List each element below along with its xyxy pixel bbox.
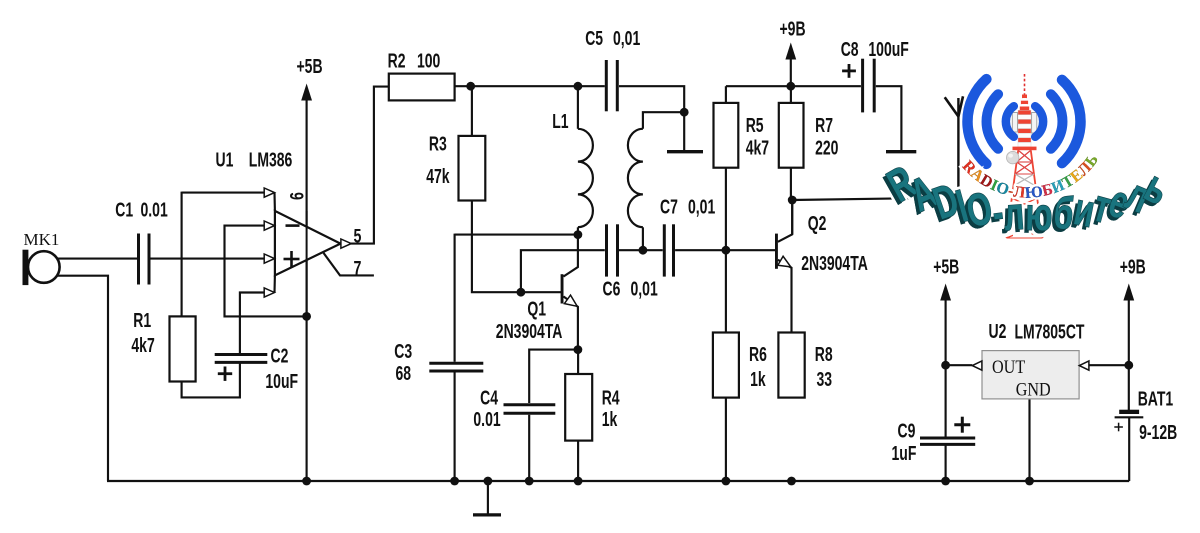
microphone MK1 circle [28,251,60,283]
junction gnd C9 [941,477,950,486]
wire R1 bottom to C2 bottom [182,363,240,397]
capacitor C5 [605,60,608,111]
svg-text:R5: R5 [746,113,764,136]
node Q1 emitter [574,345,583,354]
regulator U2 box [982,351,1079,399]
svg-text:C1: C1 [115,198,133,221]
transistor Q1 base bar [561,274,564,303]
wire R4 top lead [577,350,579,374]
transistor Q2 emitter [778,260,792,333]
capacitor C7 [663,224,666,276]
junction gnd C4 [525,477,534,486]
ground bar near C8 [886,150,916,153]
wire +9B top stub [790,56,792,86]
transistor Q1 collector [564,235,578,277]
wire +9B right vertical to BAT1 [1128,292,1130,410]
resistor R3 [459,136,486,201]
wire Q1 emitter node to C4 [529,350,578,403]
resistor R2 [389,74,455,101]
wire audio rail R2 to C5 [455,85,605,87]
svg-text:7: 7 [354,258,362,279]
node +9B rail [786,82,795,91]
svg-text:GND: GND [1016,378,1051,400]
op-amp minus symbol [286,224,300,227]
wire C3 bottom lead [454,373,456,482]
svg-text:0,01: 0,01 [631,277,659,300]
wire C4 bottom lead [528,415,530,481]
wire R5 top lead [725,86,727,103]
power +9B right arrow [1123,284,1134,301]
svg-text:5: 5 [354,226,362,247]
svg-text:C7: C7 [660,195,678,218]
node +9B-U2 [1124,361,1133,370]
logo RADIO-lyubitel group [876,74,1177,244]
logo blue arc left outer [967,79,986,164]
node C5-L1 ground [680,108,689,117]
svg-text:R6: R6 [749,343,767,366]
wire op-amp pin 2 to C2 top [240,293,266,355]
logo blue arc right outer [1062,80,1081,163]
power +9B top arrow [785,43,796,60]
svg-text:MK1: MK1 [24,230,60,249]
op-amp input arrow inverting [264,221,274,230]
svg-text:R2: R2 [388,49,406,72]
node +5B-U2 [941,361,950,370]
op-amp pin stub top [273,193,276,211]
op-amp pin stub bottom [273,275,276,292]
svg-text:U1: U1 [216,148,234,171]
C2 plus sign [218,372,232,375]
power +5B right arrow [940,284,951,301]
transistor Q2 collector [778,200,792,242]
wire R3 top lead [471,86,473,136]
wire antenna feed [792,198,959,201]
op-amp output arrow pin5 [341,239,351,248]
resistor R7 [779,103,804,168]
svg-text:2N3904TA: 2N3904TA [496,320,563,343]
capacitor C2 [215,353,268,356]
svg-text:2N3904TA: 2N3904TA [801,252,868,275]
svg-text:BAT1: BAT1 [1138,387,1174,410]
antenna fork right [958,96,963,116]
svg-text:C8: C8 [841,37,859,60]
op-amp input arrow noninverting [264,254,274,263]
wire +5B right vertical to C9 [945,292,947,437]
wire R3 bottom to Q1 base [472,201,561,293]
svg-text:4k7: 4k7 [131,334,154,357]
wire L1 left bottom lead [577,227,579,234]
wire R4 bottom lead [577,441,579,481]
antenna fork left [945,97,959,116]
resistor R8 [778,333,804,398]
op-amp input arrow pin2 [264,288,274,297]
svg-text:C3: C3 [394,339,412,362]
wire Q2 collector vertical [791,199,793,234]
junction gnd pin4 [302,477,311,486]
node C6-C7-L1 [639,246,648,255]
logo blue arc left inner [1006,106,1014,137]
svg-text:R3: R3 [429,132,447,155]
node Q1 base [517,288,526,297]
svg-text:+9B: +9B [1120,255,1146,278]
U2 OUT pin arrow [972,361,982,370]
op-amp U1 triangle [275,211,341,276]
wire C1 to op-amp noninverting input [151,258,266,260]
wire mic top output [57,258,137,260]
svg-text:R1: R1 [133,308,151,331]
wire L1 right bottom to C6 node [642,227,644,250]
U2 IN pin arrow [1079,361,1089,370]
capacitor C3 [429,362,483,365]
svg-text:OUT: OUT [992,356,1025,378]
logo big arched text RADIO-lyubitel [876,156,1177,243]
junction gnd U2 [1025,477,1034,486]
transistor Q2 base bar [775,234,778,269]
wire mic bottom to ground [56,276,108,481]
svg-text:Q1: Q1 [527,297,546,320]
wire C6 to C7 [619,249,663,251]
wire R6 bottom lead [725,398,727,481]
svg-text:LM386: LM386 [249,148,293,171]
capacitor C9 [920,437,975,440]
wire op-amp inverting loop [225,226,307,317]
svg-text:10uF: 10uF [265,369,298,392]
svg-text:U2: U2 [989,319,1007,342]
svg-text:R7: R7 [815,113,833,136]
svg-text:л: л [1002,188,1026,241]
battery BAT1 thick plate [1119,410,1139,414]
svg-text:+5B: +5B [933,255,959,278]
wire ground rail [107,480,1129,482]
capacitor C1 [137,234,140,285]
transistor Q2 emitter arrow [778,256,791,267]
wire C5 right to ground corner [619,86,684,112]
svg-text:0.01: 0.01 [141,198,169,221]
transistor Q1 emitter [564,297,578,350]
resistor R1 [170,316,196,381]
svg-text:220: 220 [815,136,838,159]
svg-text:+5B: +5B [297,54,323,77]
wire C7 to Q2 base [675,249,775,251]
junction gnd R6 [722,477,731,486]
wire U2 OUT to +5B node [946,364,973,366]
resistor R4 [565,374,592,441]
inductor L1 primary coil [578,129,593,227]
capacitor C4 [504,403,556,406]
ground bar near L1 [667,150,703,153]
svg-text:1uF: 1uF [892,441,917,464]
wire +5B pin6 vertical through op-amp to ground [306,94,308,481]
wire U2 IN to +9B node [1089,364,1129,366]
wire U2 GND lead [1028,399,1030,481]
svg-text:R4: R4 [602,386,620,409]
node R2-R3 [466,82,475,91]
wire BAT1 bottom lead [1128,418,1130,481]
node op-amp pin4 [302,312,311,321]
transistor Q1 emitter arrow [564,295,577,306]
wire C8 right to ground [876,86,902,150]
svg-text:6: 6 [287,192,308,200]
svg-text:ю: ю [1025,189,1053,241]
svg-text:1k: 1k [750,367,766,390]
junction gnd R4 [574,477,583,486]
wire R1 net horizontal to op-amp pin 3 [182,192,266,194]
resistor R5 [714,103,739,168]
C9 plus sign [954,423,970,426]
wire pin6 overlay [306,211,308,317]
wire R5 bottom to R6 top node [725,168,727,333]
antenna mast [957,98,959,198]
wire tank node horizontal [455,234,578,236]
svg-text:1k: 1k [602,408,618,431]
svg-text:9-12B: 9-12B [1139,421,1177,444]
wire op-amp pin 5 output [351,87,389,244]
svg-text:C5: C5 [585,26,603,49]
microphone MK1 body bar [23,250,29,285]
capacitor C6 [605,224,608,276]
ground symbol stub [487,481,489,514]
C8 plus sign [842,70,856,73]
junction gnd R8 [787,477,796,486]
svg-text:C6: C6 [603,277,621,300]
node tank collector [574,230,583,239]
logo radio tower [1007,74,1043,238]
logo blue arc right middle [1051,94,1063,149]
svg-text:33: 33 [817,367,833,390]
wire R7 top lead [790,86,792,103]
junction gnd symbol [484,477,493,486]
wire Q1 base to C6 [521,250,605,292]
wire +9B rail to C8 [726,85,861,87]
op-amp plus symbol [284,258,300,261]
wire C9 bottom lead [945,445,947,481]
logo blue arc right inner [1035,106,1043,137]
op-amp input arrow pin3 [264,188,274,197]
wire L1 left top lead [577,86,579,129]
svg-text:C4: C4 [480,386,498,409]
capacitor C8 [861,59,864,113]
junction gnd C3 [450,477,459,486]
node R7-Q2-antenna [788,196,797,205]
svg-text:L1: L1 [552,109,569,132]
ground symbol bar [473,513,501,516]
resistor R6 [713,333,739,398]
svg-text:C9: C9 [898,419,916,442]
wire C3 top lead [454,234,456,362]
power +5B left arrow [301,84,312,101]
svg-text:100uF: 100uF [868,37,908,60]
svg-text:0,01: 0,01 [688,195,716,218]
svg-text:68: 68 [396,361,412,384]
inductor L1 secondary coil [628,129,643,227]
wire R1 net vertical [181,192,183,317]
svg-text:C2: C2 [271,344,289,367]
svg-text:47k: 47k [426,165,450,188]
battery BAT1 plus [1114,426,1123,428]
svg-text:R8: R8 [815,343,833,366]
wire L1 right top to ground stub [643,112,684,150]
svg-text:0.01: 0.01 [473,408,501,431]
svg-text:100: 100 [417,49,440,72]
svg-text:LM7805CT: LM7805CT [1015,320,1085,343]
node C7-R5-R6 [722,246,731,255]
wire op-amp pin 7 stub [324,253,374,276]
svg-text:4k7: 4k7 [746,136,769,159]
logo blue arc left middle [987,94,999,149]
svg-text:Q2: Q2 [808,211,827,234]
node L1 top [574,82,583,91]
svg-text:0,01: 0,01 [613,26,641,49]
wire R7 bottom to antenna node [790,168,792,200]
battery BAT1 thin plate [1115,416,1144,418]
svg-text:+9B: +9B [780,17,806,40]
